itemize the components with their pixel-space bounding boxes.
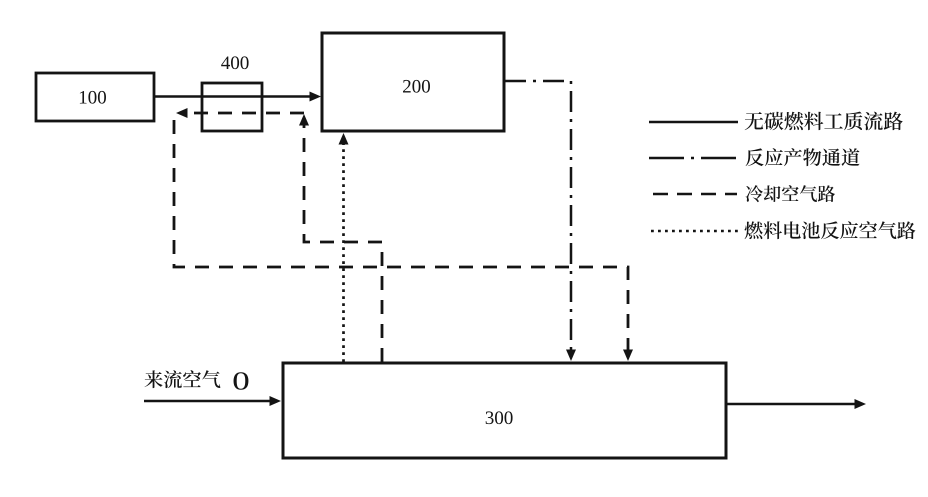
legend dotted line sample <box>651 230 738 233</box>
wire fuel line 100 to 200 (solid) <box>154 92 321 102</box>
wire reaction products 200 to 300 (dash-dot) <box>505 81 576 361</box>
label 300 <box>486 411 513 424</box>
box 300 (fuel cell) <box>283 363 726 458</box>
label 400 <box>221 56 248 69</box>
text wuTanRanLiao <box>745 112 903 131</box>
text fanYingChanWu <box>746 148 860 166</box>
text ranLiaoDianChi <box>745 221 916 239</box>
box 400 (heat exchanger) <box>202 83 262 131</box>
text lengQueKongQi <box>746 185 835 202</box>
wire inlet air to 300 (solid) <box>144 396 281 406</box>
box 200 (reformer) <box>322 33 504 131</box>
text laiLiuKongQi <box>145 370 221 388</box>
label 200 <box>403 80 430 93</box>
wire cooling air through 400 (dashed, arrow left) <box>176 108 304 118</box>
legend solid line sample <box>649 121 738 124</box>
wire cooling air return to 300 (dashed) <box>174 120 633 361</box>
label 100 <box>80 91 106 104</box>
wire fuel cell reaction air 300 to 200 (dotted) <box>339 133 349 362</box>
legend dashed line sample <box>653 193 737 196</box>
wire cooling air up-leg from 300 (dashed) <box>299 114 382 362</box>
wire outlet air from 300 (solid) <box>727 399 866 409</box>
box 100 (fuel source) <box>36 73 154 121</box>
label 0 <box>234 372 249 390</box>
legend dash-dot line sample <box>649 157 737 160</box>
